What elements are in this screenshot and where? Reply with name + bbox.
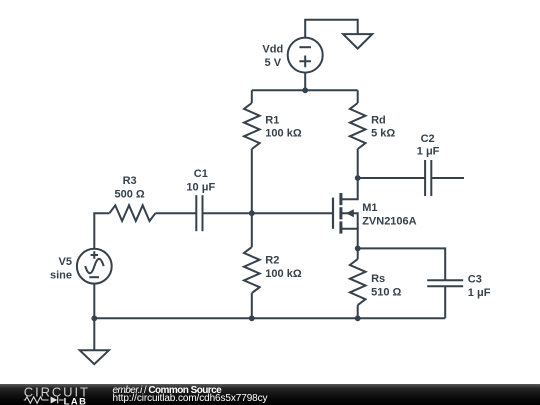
- svg-text:Vdd: Vdd: [262, 44, 283, 56]
- junction node bottom V5: [91, 315, 97, 321]
- footer title line: [113, 386, 222, 396]
- svg-text:R1: R1: [265, 114, 279, 126]
- svg-text:M1: M1: [362, 202, 377, 214]
- svg-text:500 Ω: 500 Ω: [114, 188, 144, 200]
- wire bottom rail: [94, 317, 445, 319]
- wire V5 bottom: [93, 284, 95, 319]
- svg-text:R2: R2: [265, 255, 279, 267]
- wire Vdd top to ground: [305, 20, 358, 38]
- svg-text:100 kΩ: 100 kΩ: [265, 128, 302, 140]
- footer bar: [0, 384, 540, 405]
- junction node drain: [355, 175, 361, 181]
- svg-text:LAB: LAB: [64, 396, 88, 405]
- junction node bottom R2: [249, 315, 255, 321]
- CircuitLab logo: [22, 384, 100, 405]
- wire top rail: [252, 89, 358, 91]
- wire C1 to gate node: [203, 212, 252, 214]
- wire V5 to R3: [94, 213, 109, 249]
- svg-text:C3: C3: [468, 274, 482, 286]
- svg-text:1 μF: 1 μF: [417, 146, 440, 158]
- svg-text:Rd: Rd: [371, 114, 386, 126]
- footer url line: [113, 394, 268, 404]
- resistor R1: [244, 90, 260, 213]
- svg-text:V5: V5: [59, 256, 72, 268]
- resistor R2: [244, 213, 260, 318]
- svg-text:100 kΩ: 100 kΩ: [265, 268, 302, 280]
- junction node bottom Rs: [355, 315, 361, 321]
- resistor R3: [109, 205, 155, 221]
- svg-text:5 kΩ: 5 kΩ: [371, 128, 395, 140]
- svg-text:510 Ω: 510 Ω: [371, 286, 401, 298]
- svg-text:ZVN2106A: ZVN2106A: [362, 216, 416, 228]
- capacitor C3: [427, 280, 463, 318]
- svg-text:1 μF: 1 μF: [468, 287, 491, 299]
- capacitor C1: [196, 195, 202, 231]
- svg-text:5 V: 5 V: [265, 57, 282, 69]
- resistor Rd: [350, 90, 366, 178]
- junction node gate: [249, 210, 255, 216]
- svg-text:sine: sine: [50, 270, 72, 282]
- wire source node to C3: [358, 248, 446, 280]
- ground symbol bottom left: [80, 318, 109, 364]
- resistor Rs: [350, 248, 366, 318]
- capacitor C2: [425, 160, 464, 196]
- wire Vdd bottom: [304, 73, 306, 91]
- ground symbol top right: [343, 34, 372, 49]
- junction node source: [355, 246, 361, 252]
- svg-text:Rs: Rs: [371, 273, 385, 285]
- wire gate node to M1 gate: [252, 212, 333, 214]
- transistor M1 (NMOS): [333, 178, 358, 248]
- svg-text:C1: C1: [194, 168, 208, 180]
- junction node Vdd rail: [302, 87, 308, 93]
- wire R3 to C1: [155, 212, 196, 214]
- svg-text:C2: C2: [421, 133, 435, 145]
- voltage source Vdd: [288, 38, 323, 73]
- voltage source V5: [77, 249, 112, 284]
- svg-text:10 μF: 10 μF: [186, 182, 215, 194]
- svg-text:R3: R3: [123, 175, 137, 187]
- wire drain node to C2: [358, 177, 425, 179]
